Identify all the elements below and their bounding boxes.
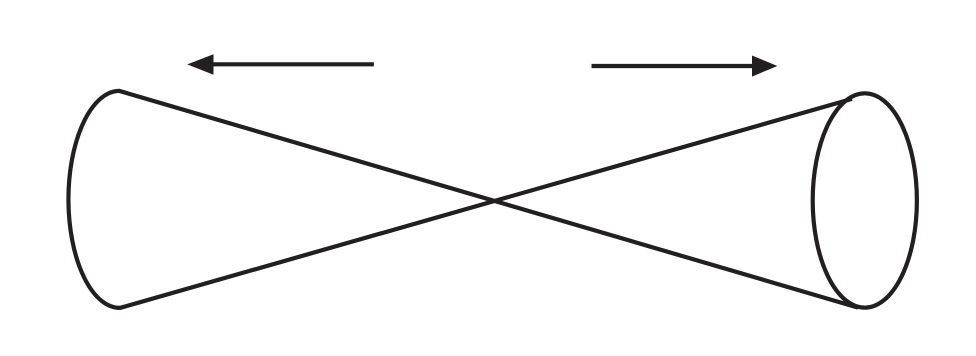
left arrow (pointing left) (187, 54, 374, 75)
left cone outline: side line, base arc, side line (wires of the X) (68, 91, 858, 308)
right cone base ellipse (813, 93, 917, 307)
right arrow (pointing right) (592, 56, 778, 77)
